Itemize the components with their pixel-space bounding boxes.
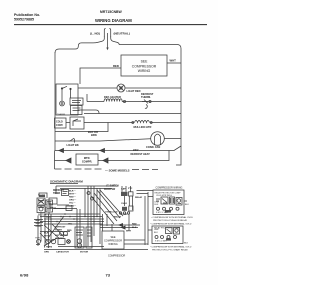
svg-text:CONT.: CONT. bbox=[56, 124, 64, 127]
left cluster boxes mid bbox=[49, 198, 72, 211]
bottom rail lower diagram bbox=[44, 249, 148, 251]
ground stem and arrow bbox=[106, 33, 108, 50]
svg-text:BLK: BLK bbox=[184, 243, 189, 245]
svg-text:• COMPRESSOR WITH INTERNAL OVL: • COMPRESSOR WITH INTERNAL OVLD bbox=[150, 222, 192, 225]
svg-text:THERM.: THERM. bbox=[141, 95, 151, 99]
condenser fan motor bbox=[151, 132, 165, 146]
svg-text:MULLION HTR: MULLION HTR bbox=[134, 125, 152, 129]
svg-text:TMR: TMR bbox=[35, 238, 40, 240]
svg-text:RED: RED bbox=[113, 64, 119, 68]
run capacitor symbol bbox=[67, 240, 71, 244]
svg-text:BLK: BLK bbox=[185, 204, 189, 206]
svg-text:WHT: WHT bbox=[36, 223, 42, 225]
tall box2 ticks bbox=[87, 230, 91, 236]
svg-text:RELAY: RELAY bbox=[135, 196, 143, 199]
left verticals bbox=[38, 214, 51, 248]
svg-text:WHT: WHT bbox=[170, 59, 177, 63]
box1 terminal row bbox=[157, 207, 160, 210]
legend stub wires bbox=[137, 191, 154, 231]
left bus wire bbox=[54, 52, 57, 169]
svg-text:5995279885: 5995279885 bbox=[14, 18, 34, 22]
svg-text:BLK: BLK bbox=[36, 220, 41, 222]
wire: plug right lead to right bus bbox=[111, 36, 181, 49]
svg-text:LINE: LINE bbox=[154, 229, 159, 231]
svg-text:BLK: BLK bbox=[44, 233, 49, 235]
label defrost therm bbox=[141, 92, 154, 99]
mullion heater resistor bbox=[135, 120, 150, 122]
svg-text:Publication No.: Publication No. bbox=[14, 13, 40, 17]
svg-text:S M C L WHT: S M C L WHT bbox=[156, 212, 169, 214]
wire: mid rail bbox=[84, 113, 181, 115]
junction dots on mesh bbox=[44, 213, 101, 225]
svg-text:LT. SWITCH: LT. SWITCH bbox=[106, 185, 119, 187]
door switch box bbox=[70, 117, 84, 129]
bottom labels bbox=[0, 0, 1, 1]
publication number block bbox=[14, 13, 40, 22]
bottom wire second bbox=[58, 246, 104, 248]
svg-text:ORG: ORG bbox=[36, 226, 41, 228]
legend box 2 bbox=[152, 226, 183, 244]
box2 bottom text bbox=[155, 241, 168, 243]
legend box 1 bbox=[153, 190, 184, 215]
svg-text:4 TERM: 4 TERM bbox=[44, 245, 52, 248]
svg-text:LIGHT RED: LIGHT RED bbox=[127, 89, 141, 93]
header rule bbox=[14, 24, 207, 26]
svg-text:RED—: RED— bbox=[69, 197, 77, 199]
box1 relay parts bbox=[156, 197, 182, 205]
label top center bbox=[104, 185, 119, 191]
defrost thermostat bbox=[142, 100, 151, 109]
svg-text:RELAY PROTECTOR COMP: RELAY PROTECTOR COMP bbox=[155, 191, 182, 194]
svg-text:COMPRESSOR: COMPRESSOR bbox=[108, 255, 126, 258]
mesh horizontals bbox=[40, 209, 104, 225]
cold control box bbox=[55, 118, 67, 128]
svg-text:230V: 230V bbox=[133, 150, 139, 152]
svg-text:COMPRESSOR WIRING: COMPRESSOR WIRING bbox=[156, 187, 183, 190]
bundle terminal circles bbox=[87, 192, 90, 195]
wire: plug left lead to left bus bbox=[55, 36, 104, 53]
left color labels bbox=[36, 220, 42, 228]
svg-text:6/98: 6/98 bbox=[20, 273, 29, 278]
svg-text:DEFROST HEAT: DEFROST HEAT bbox=[131, 153, 151, 156]
model number bbox=[100, 10, 122, 14]
wire: mullion heater rail bbox=[66, 122, 181, 124]
center vertical bundle bbox=[77, 186, 112, 246]
svg-text:DOOR SW: DOOR SW bbox=[104, 189, 116, 191]
cluster terminal circles bbox=[119, 212, 121, 214]
svg-text:BLK: BLK bbox=[155, 204, 159, 206]
timer cap blob bbox=[39, 195, 45, 197]
branch wire right bbox=[98, 151, 169, 161]
svg-text:BLK: BLK bbox=[132, 227, 137, 229]
svg-text:RED: RED bbox=[132, 224, 137, 226]
mesh labels bbox=[44, 224, 73, 241]
box2 parts bbox=[154, 227, 181, 230]
svg-text:(L. NO): (L. NO) bbox=[90, 32, 100, 36]
fan rail switch ticks bbox=[69, 138, 75, 142]
svg-text:COND. FAN: COND. FAN bbox=[146, 145, 160, 149]
freezer light lamp bbox=[117, 84, 125, 92]
labels right of box bbox=[105, 211, 137, 233]
box1 bottom text bbox=[156, 212, 169, 214]
wires right of compressor box bbox=[100, 214, 148, 245]
power plug prongs bbox=[104, 29, 110, 37]
terminal bbox=[123, 100, 125, 102]
relay labels bbox=[121, 188, 143, 217]
svg-text:SEE: SEE bbox=[141, 60, 149, 64]
svg-text:GRN: GRN bbox=[44, 252, 49, 254]
svg-text:TIMER: TIMER bbox=[53, 193, 60, 195]
mid circles pair bbox=[60, 232, 64, 236]
wire: defrost heater circuit bbox=[87, 94, 181, 102]
wire: light circuit bbox=[78, 87, 181, 89]
overlap box right of control bbox=[70, 98, 83, 105]
right columns verticals bbox=[145, 192, 148, 245]
wire: fan rail bbox=[55, 139, 181, 142]
timer component stack bbox=[37, 195, 53, 213]
bottom rail arrows bbox=[59, 149, 105, 153]
svg-text:LIGHT BK: LIGHT BK bbox=[67, 143, 79, 147]
svg-text:COMPR.: COMPR. bbox=[82, 160, 93, 164]
dashed some-models rule bbox=[55, 168, 159, 171]
mid-left connector wire bbox=[40, 231, 70, 233]
svg-text:RELAY: RELAY bbox=[114, 216, 122, 219]
box2 terminal row bbox=[155, 236, 158, 239]
label 4 term bbox=[44, 245, 89, 253]
box1 top text row bbox=[155, 191, 182, 197]
svg-text:WIRING: WIRING bbox=[138, 69, 151, 73]
svg-text:PROTECTOR & PUSH-ON RELAY: PROTECTOR & PUSH-ON RELAY bbox=[153, 219, 188, 222]
svg-text:MTR.: MTR. bbox=[84, 156, 91, 160]
title WIRING DIAGRAM bbox=[95, 18, 132, 23]
svg-text:CAP: CAP bbox=[121, 188, 126, 191]
wire: blk/brn rail bbox=[55, 123, 108, 132]
svg-text:OVLD: OVLD bbox=[121, 203, 127, 205]
box2 dark blob bbox=[166, 238, 171, 240]
svg-text:MOTOR: MOTOR bbox=[80, 252, 89, 254]
svg-text:THERM.: THERM. bbox=[57, 114, 66, 116]
wire color legend stack bbox=[69, 191, 77, 208]
arrow connectors bbox=[119, 224, 125, 230]
svg-text:73: 73 bbox=[106, 273, 111, 278]
svg-text:GRN—: GRN— bbox=[69, 206, 77, 208]
wire: WHT lead compressor to right bus bbox=[167, 62, 181, 64]
svg-text:• COMPRESSOR WITH INTERNAL OVL: • COMPRESSOR WITH INTERNAL OVLD bbox=[150, 245, 192, 248]
defrost heater coil bbox=[104, 99, 122, 102]
svg-text:WHT—: WHT— bbox=[69, 194, 77, 196]
schematic diagram title bbox=[50, 180, 83, 184]
svg-text:WHT: WHT bbox=[126, 231, 132, 233]
svg-text:BRN: BRN bbox=[91, 133, 97, 137]
svg-text:ORG—: ORG— bbox=[69, 200, 77, 202]
svg-text:— SOME MODELS: — SOME MODELS bbox=[105, 169, 130, 173]
control box inner parts bbox=[60, 86, 72, 106]
right bus wire bbox=[176, 49, 181, 166]
small relay box bbox=[62, 190, 69, 196]
svg-text:WIRING DIAGRAM: WIRING DIAGRAM bbox=[95, 18, 132, 23]
tall box1 ticks bbox=[76, 230, 83, 235]
left cluster extra marks bbox=[34, 217, 51, 245]
svg-text:YEL: YEL bbox=[68, 224, 73, 226]
wire: branch left lead bbox=[55, 160, 67, 162]
svg-text:COMP: COMP bbox=[121, 214, 128, 216]
svg-text:(NEUTRAL): (NEUTRAL) bbox=[114, 32, 130, 36]
wire: RED lead to compressor box bbox=[80, 68, 121, 84]
wire: stub from control box bbox=[78, 110, 99, 114]
legend box 2 caption bbox=[150, 245, 192, 251]
legend box 1 caption bbox=[151, 216, 193, 222]
compressor branch box bbox=[76, 154, 98, 165]
branch diodes bbox=[66, 158, 71, 163]
fan diagonals bbox=[91, 190, 123, 224]
svg-text:PROTECTOR & PTC START RELAY: PROTECTOR & PTC START RELAY bbox=[152, 248, 188, 251]
box1 dark blob bbox=[165, 210, 171, 213]
svg-text:MRT15CNBW: MRT15CNBW bbox=[100, 10, 122, 14]
small circle left bbox=[37, 240, 41, 244]
svg-text:S M C L WHT: S M C L WHT bbox=[155, 241, 168, 243]
box1 left text bbox=[155, 202, 160, 207]
svg-text:DEF. HEATER: DEF. HEATER bbox=[104, 95, 121, 99]
box2 left text bbox=[154, 229, 159, 234]
branch arrow bbox=[103, 158, 108, 163]
svg-text:SCHEMATIC DIAGRAM: SCHEMATIC DIAGRAM bbox=[50, 180, 83, 184]
defrost timer labels bbox=[38, 190, 65, 198]
svg-text:BLK: BLK bbox=[154, 232, 158, 234]
label blk or brn bbox=[88, 130, 98, 137]
svg-text:CAPACITOR: CAPACITOR bbox=[56, 251, 69, 254]
wire: bottom rail bbox=[55, 146, 181, 151]
timer wires bbox=[39, 193, 49, 215]
svg-text:WIRING: WIRING bbox=[108, 243, 117, 246]
tall box pair bbox=[75, 227, 84, 248]
svg-text:• COMPRESSOR WITH EXTERNAL OVL: • COMPRESSOR WITH EXTERNAL OVLD bbox=[151, 216, 193, 219]
see compressor wiring box lower bbox=[102, 231, 124, 249]
lower-left terminal circles bbox=[46, 239, 50, 243]
tall box circles bbox=[77, 239, 81, 243]
top horizontals lower diagram bbox=[56, 186, 118, 194]
svg-text:COMPRESSOR: COMPRESSOR bbox=[132, 64, 157, 68]
svg-text:DEFROST: DEFROST bbox=[55, 227, 66, 229]
svg-text:PTC: PTC bbox=[128, 188, 133, 190]
relay cluster caps bbox=[119, 186, 133, 214]
svg-text:OVERLOAD: OVERLOAD bbox=[105, 211, 118, 214]
svg-text:BLK—: BLK— bbox=[69, 191, 76, 193]
diagonal crossing wires bottom-left bbox=[40, 216, 64, 246]
control box (cold control assembly) bbox=[56, 84, 78, 115]
svg-text:YEL—: YEL— bbox=[69, 203, 76, 205]
compressor note box bbox=[121, 55, 167, 76]
legend box 2 title bbox=[150, 222, 192, 225]
